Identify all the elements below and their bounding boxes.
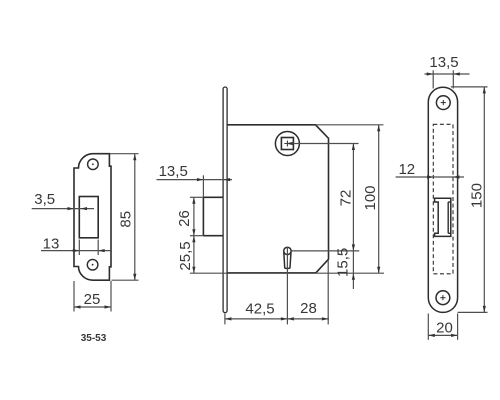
dim 25 line [74, 306, 111, 308]
svg-text:25,5: 25,5 [177, 241, 194, 270]
arrows 85 [133, 154, 136, 161]
strike plate outline [74, 154, 111, 281]
dim 3,5 line [32, 208, 94, 210]
ext: case bottom rightward [316, 272, 384, 274]
label 26 (rotated) [176, 210, 193, 227]
spindle leader line [286, 143, 358, 145]
arrows 25,5 [192, 236, 195, 243]
svg-text:28: 28 [300, 300, 317, 317]
svg-text:13,5: 13,5 [159, 163, 188, 180]
svg-text:72: 72 [338, 190, 355, 207]
top screw cross [440, 100, 446, 300]
label 15,5 (rotated) [335, 248, 352, 277]
dim 85 line [134, 154, 136, 281]
ext: bolt left face upward [202, 175, 204, 197]
label 150 (rotated) [469, 183, 486, 208]
label 100 (rotated) [362, 185, 379, 210]
dim 25 ext lines [73, 281, 75, 312]
ext: case bottom leftward [190, 272, 227, 274]
dim 13,5 right: ext lines [432, 70, 434, 88]
arrows 28 [287, 317, 294, 320]
dim 13 ext lines [78, 240, 80, 256]
strike plate top screw hole [88, 159, 99, 170]
dim 20 ext lines [427, 314, 429, 340]
svg-text:25: 25 [84, 291, 101, 308]
dim 12 line [396, 176, 464, 178]
svg-text:26: 26 [176, 210, 193, 227]
faceplate top screw hole [436, 96, 450, 110]
dim 20 line [428, 334, 457, 336]
dim 42,5 / 28 line [225, 318, 329, 320]
label 85 (rotated) [118, 211, 135, 228]
arrows 13 [73, 249, 80, 252]
arrows 12 [427, 175, 434, 178]
arrows 20 [428, 334, 435, 337]
latch bolt bevel edge [447, 202, 449, 233]
arrows 100 [377, 125, 380, 132]
latch bolt side: top edge [203, 196, 223, 198]
label 72 (rotated) [338, 190, 355, 207]
keyhole circle [284, 247, 291, 254]
dim 26 line [193, 197, 195, 235]
ext: bolt top edge leftward [190, 196, 204, 198]
dim 13 line [41, 250, 112, 252]
ext: case right edge downward [327, 260, 329, 325]
svg-text:3,5: 3,5 [34, 191, 55, 208]
lock case outline [227, 125, 328, 273]
arrows 26 [192, 197, 195, 204]
latch bolt side: left face [202, 197, 204, 235]
spindle follower circle [275, 132, 299, 156]
hidden inner plate (dashed) [433, 124, 453, 273]
dim 100 line [378, 125, 380, 273]
svg-text:42,5: 42,5 [245, 300, 274, 317]
keyhole centerline [286, 247, 288, 325]
svg-text:150: 150 [469, 183, 486, 208]
arrows 42,5 [225, 317, 232, 320]
dim 150 line [483, 87, 485, 313]
label 25,5 (rotated) [177, 241, 194, 270]
svg-text:20: 20 [436, 320, 453, 337]
dim 13,5 line [157, 179, 233, 181]
arrows 150 [483, 87, 486, 94]
svg-text:100: 100 [362, 185, 379, 210]
arrow 15,5 bottom (outside) [352, 273, 355, 280]
faceplate stadium outline [428, 87, 457, 312]
strike plate bottom screw hole [87, 259, 98, 270]
dim 15,5 line [352, 251, 354, 289]
spindle leader arrow [286, 142, 293, 145]
dim 25,5 line [193, 236, 195, 274]
svg-text:85: 85 [118, 211, 135, 228]
arrows 25 [74, 305, 81, 308]
strike plate rectangular latch hole [79, 197, 98, 238]
ext: bolt bottom edge leftward [190, 235, 204, 237]
dim 72 line [352, 144, 354, 251]
arrows 72 [352, 144, 355, 151]
spindle square hole [281, 138, 293, 150]
screw hole center dots [92, 163, 94, 165]
svg-text:12: 12 [398, 161, 415, 178]
dim 150 ext top [451, 86, 488, 88]
faceplate bar [223, 87, 227, 313]
svg-text:13: 13 [43, 236, 60, 253]
dim 85 ext lines [110, 153, 139, 155]
latch bolt side: bottom edge [203, 235, 223, 237]
keyhole ext rightward [292, 250, 360, 252]
spindle center cross [284, 141, 290, 147]
latch bolt front view [435, 198, 451, 236]
dim 150 ext bottom [458, 311, 488, 313]
svg-text:13,5: 13,5 [429, 54, 458, 71]
arrows 3,5 [68, 207, 75, 210]
ext: bar bottom downward [224, 313, 226, 324]
svg-text:35-53: 35-53 [81, 333, 107, 344]
dim 13,5 right: line [425, 73, 470, 75]
keyhole slot [284, 252, 291, 268]
arrows 13,5 right [427, 72, 434, 75]
arrows 13,5 mid [197, 178, 204, 181]
bottom screw cross [440, 297, 445, 299]
svg-text:15,5: 15,5 [335, 248, 352, 277]
faceplate bottom screw hole [436, 291, 450, 305]
ext: case top rightward [316, 124, 384, 126]
